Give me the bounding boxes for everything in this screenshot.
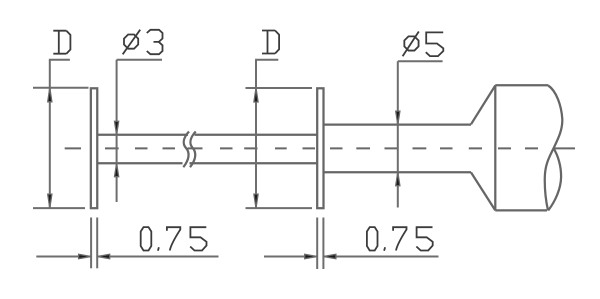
dimension 0.75 left: right dim line	[97, 256, 218, 258]
middle flange	[317, 88, 323, 208]
centerline	[65, 147, 575, 149]
shaft diameter-5 bottom line	[324, 171, 472, 173]
dimension diameter-5: leader	[398, 60, 443, 62]
break squiggle right curve	[190, 132, 196, 168]
dimension diameter-3: down arrowhead	[115, 121, 119, 135]
dimension diameter-5: up arrowhead	[396, 172, 400, 186]
cone top slant	[471, 86, 495, 125]
dimension D left: up arrowhead	[48, 88, 52, 102]
dimension 0.75 right: left dim line	[264, 256, 317, 258]
text 0.75 right: decimal point	[384, 247, 385, 251]
shaft diameter-3 top line left of break	[97, 134, 188, 136]
dimension 0.75 left: left extension line	[90, 218, 92, 269]
dimension diameter-3: dim line through shaft	[116, 60, 118, 202]
shaft diameter-3 bottom line left of break	[97, 162, 182, 164]
dimension 0.75 left: left dim line	[36, 256, 91, 258]
dimension diameter-5: down arrowhead	[396, 111, 400, 125]
dimension 0.75 left: right extension line	[96, 218, 98, 269]
letter D left	[53, 31, 70, 54]
shaft diameter-3 bottom line right of break	[190, 162, 317, 164]
digit 5	[426, 32, 444, 56]
knob S-break lens arc	[548, 148, 561, 210]
text 0.75 right: digit 5	[416, 227, 432, 250]
diameter symbol of 5	[403, 32, 419, 57]
dimension 0.75 right: left-pointing arrowhead	[323, 254, 336, 258]
dimension D left: leader to text	[49, 59, 70, 61]
dimension D middle: top extension line	[246, 87, 313, 89]
dimension 0.75 right: right extension line	[322, 218, 324, 270]
dimension D middle: up arrowhead	[254, 88, 258, 102]
dimension D middle: bottom extension line	[246, 207, 313, 209]
knob top line	[495, 84, 548, 86]
dimension diameter-3: leader	[117, 59, 162, 61]
text 0.75 left: digit 0	[141, 227, 152, 250]
digit 3	[147, 30, 163, 54]
dimension D left: top extension line	[33, 87, 89, 89]
dimension D middle: dimension line	[255, 60, 257, 208]
diameter symbol of 3	[123, 30, 141, 55]
cone bottom slant	[471, 172, 495, 210]
text 0.75 left: digit 7	[167, 227, 180, 250]
dimension D middle: down arrowhead	[254, 194, 258, 208]
shaft diameter-5 top line	[324, 123, 472, 125]
text 0.75 left: digit 5	[190, 227, 206, 250]
dimension 0.75 right: right dim line	[323, 256, 438, 258]
text 0.75 right: digit 7	[393, 227, 406, 250]
letter D middle	[262, 31, 279, 54]
dimension D left: bottom extension line	[33, 207, 85, 209]
dimension 0.75 right: left extension line	[316, 218, 318, 270]
dimension 0.75 left: left-pointing arrowhead	[97, 254, 110, 258]
text 0.75 right: digit 0	[367, 227, 378, 250]
dimension D left: dimension line	[49, 60, 51, 208]
dimension D middle: leader to text	[255, 59, 278, 61]
dimension diameter-3: up arrowhead	[115, 163, 119, 177]
dimension D left: down arrowhead	[48, 194, 52, 208]
knob bottom line	[495, 209, 547, 211]
dimension 0.75 right: right-pointing arrowhead	[305, 254, 318, 258]
knob S-break main curve	[545, 86, 563, 211]
left flange	[91, 88, 97, 208]
break squiggle left curve	[183, 132, 189, 168]
dimension diameter-5: dim line through shaft	[397, 61, 399, 207]
dimension 0.75 left: right-pointing arrowhead	[79, 254, 92, 258]
text 0.75 left: decimal point	[158, 247, 159, 251]
knob left face	[494, 85, 496, 210]
shaft diameter-3 top line right of break	[195, 134, 317, 136]
